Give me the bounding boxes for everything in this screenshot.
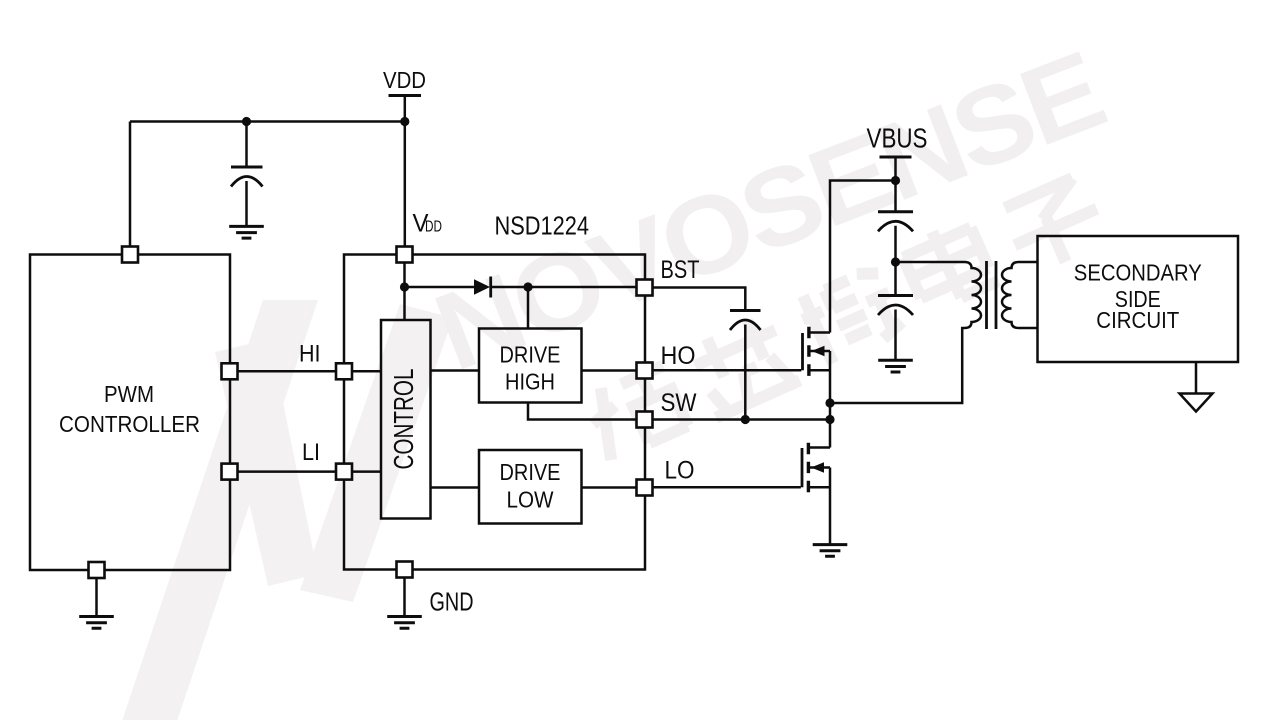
pin NSD1224 SW [637, 412, 653, 428]
transformer T1 secondary winding [1002, 262, 1038, 328]
pin NSD1224 GND [397, 562, 413, 578]
wire BST node down to DRIVE HIGH [527, 287, 530, 329]
NSD1224 IC boundary U2 [344, 255, 645, 570]
svg-text:HO: HO [661, 342, 696, 370]
node VBUS junction [891, 176, 900, 185]
svg-text:CIRCUIT: CIRCUIT [1096, 307, 1179, 333]
wire CONTROL to DRIVE HIGH [431, 369, 480, 372]
svg-text:SW: SW [661, 389, 697, 417]
capacitor C1 (VDD decoupling) [231, 122, 263, 227]
wire HI net [238, 370, 382, 373]
wire VDD pin to internal node [403, 263, 406, 321]
ground (Q2 source) [813, 545, 848, 557]
DRIVE LOW label [500, 459, 561, 513]
svg-text:LI: LI [302, 439, 320, 466]
svg-text:HIGH: HIGH [505, 369, 555, 395]
DRIVE HIGH label [500, 342, 561, 395]
svg-text:LOW: LOW [507, 487, 554, 513]
svg-text:BST: BST [661, 256, 700, 284]
VBUS supply symbol [867, 123, 928, 212]
watermark Chinese text (stylized strokes) [578, 167, 1112, 465]
node internal VDD junction [400, 282, 409, 291]
node VDD rail junction at VDD stem [400, 117, 409, 126]
watermark NOVOSENSE text [420, 28, 1118, 394]
ground (VBUS capacitors) [878, 360, 913, 372]
capacitor C4 (bootstrap) [730, 311, 761, 420]
node BST internal junction [523, 282, 532, 291]
svg-text:HI: HI [299, 341, 321, 368]
secondary side circuit block [1038, 236, 1239, 362]
wire BST pin to bootstrap cap [653, 288, 746, 311]
svg-text:SECONDARY: SECONDARY [1074, 260, 1202, 286]
node SW half-bridge junction [825, 415, 834, 424]
node transformer primary return [825, 398, 834, 407]
VDD supply symbol [383, 67, 426, 247]
node VDD rail junction at capacitor [242, 117, 251, 126]
ground (NSD1224 GND) [387, 617, 422, 629]
svg-text:GND: GND [430, 587, 474, 617]
pin NSD1224 LO [637, 480, 653, 496]
PWM controller label [59, 381, 200, 437]
ground (C1) [229, 226, 264, 238]
secondary side circuit label [1074, 260, 1202, 334]
transistor Q1 (high-side NMOS) [803, 327, 831, 420]
pin NSD1224 VDD [397, 247, 413, 263]
pin PWM HI output [222, 363, 238, 379]
svg-text:DD: DD [425, 219, 442, 236]
chassis ground (secondary side) [1180, 394, 1213, 412]
wire DRIVE HIGH to HO pin [582, 369, 637, 372]
wire DRIVE HIGH to SW pin [528, 403, 637, 420]
svg-text:VBUS: VBUS [867, 123, 928, 154]
node SW at bootstrap cap [741, 415, 750, 424]
svg-text:DRIVE: DRIVE [500, 342, 561, 368]
wire PWM ground stem [95, 578, 98, 616]
capacitor C3 (VBUS lower) [878, 296, 913, 361]
diode D1 (bootstrap) [474, 277, 491, 298]
pin PWM LI output [222, 464, 238, 480]
wire NSD GND stem [403, 578, 406, 617]
wire SW pin to half-bridge node [653, 418, 831, 421]
svg-text:VDD: VDD [383, 67, 426, 93]
wire LI net [238, 470, 382, 473]
DRIVE HIGH block [479, 329, 582, 403]
pin NSD1224 BST [637, 280, 653, 296]
pin NSD1224 HI [336, 363, 352, 379]
wire CONTROL to DRIVE LOW [431, 486, 480, 489]
pin PWM GND (bottom) [89, 562, 105, 578]
wire internal VDD to diode anode [405, 286, 476, 289]
svg-text:CONTROL: CONTROL [388, 369, 419, 470]
wire Q1 drain to VBUS branch [830, 181, 896, 333]
CONTROL block [381, 320, 431, 519]
pin NSD1224 HO [637, 363, 653, 379]
wire HO pin to Q1 gate [653, 369, 802, 372]
wire DRIVE LOW to LO pin [582, 486, 637, 489]
pin NSD1224 LI [336, 464, 352, 480]
wire VBUS midpoint to transformer primary [896, 261, 965, 264]
transistor Q2 (low-side NMOS) [802, 420, 830, 545]
node VBUS divider midpoint [891, 257, 900, 266]
svg-text:LO: LO [665, 457, 695, 485]
pin PWM VDD (top) [122, 247, 138, 263]
capacitor C2 (VBUS upper) [878, 212, 913, 296]
watermark Novosense N logo [115, 300, 453, 720]
svg-text:CONTROLLER: CONTROLLER [59, 411, 200, 437]
DRIVE LOW block [479, 450, 582, 524]
ground (PWM controller) [79, 617, 114, 629]
svg-text:PWM: PWM [104, 381, 154, 407]
PWM controller U1 [30, 255, 230, 571]
wire secondary ground stem [1195, 362, 1198, 394]
wire VDD rail [130, 122, 405, 247]
wire diode cathode to BST pin [491, 286, 637, 289]
wire LO pin to Q2 gate [653, 486, 801, 489]
transformer T1 core [987, 261, 997, 329]
pin VDD label [413, 210, 443, 238]
svg-text:NSD1224: NSD1224 [495, 211, 590, 241]
transformer T1 primary winding [830, 262, 981, 403]
svg-text:DRIVE: DRIVE [500, 459, 561, 485]
